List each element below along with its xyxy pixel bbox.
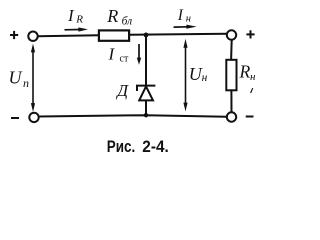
wire top right segment — [129, 34, 227, 35]
current arrow Iн — [174, 25, 197, 29]
wire from diode to bottom rail — [145, 100, 147, 115]
terminal circle bottom-right — [227, 112, 236, 121]
resistor Rн body — [226, 60, 236, 91]
current arrow IR — [65, 27, 89, 31]
wire from Rн down to bottom-right terminal — [230, 90, 232, 112]
svg-text:R: R — [75, 13, 83, 25]
voltage arrow Uп (double-headed, left side) — [31, 44, 35, 112]
comma after Rн — [250, 88, 253, 93]
svg-text:н: н — [250, 71, 256, 83]
svg-text:н: н — [202, 72, 208, 84]
svg-text:Д: Д — [115, 81, 129, 100]
node junction top (dot) — [144, 33, 149, 38]
diode Д (zener) cathode bar with bent end — [137, 86, 155, 91]
svg-text:п: п — [23, 76, 29, 90]
svg-text:2-4.: 2-4. — [142, 138, 169, 156]
wire top left segment — [38, 34, 99, 37]
svg-text:н: н — [186, 13, 191, 24]
terminal circle bottom-left — [29, 113, 38, 122]
diode Д triangle — [139, 86, 153, 100]
terminal minus sign (output -) — [246, 116, 254, 118]
svg-text:U: U — [9, 68, 23, 88]
svg-text:бл: бл — [122, 16, 133, 28]
resistor Rбл body — [99, 30, 129, 40]
wire from top-right terminal down to Rн — [230, 40, 233, 60]
svg-text:Рис.: Рис. — [107, 138, 136, 156]
terminal plus sign (input +) — [10, 31, 18, 39]
wire from junction down to diode — [145, 35, 147, 86]
node junction bottom (dot) — [144, 113, 148, 117]
terminal minus sign (input -) — [11, 117, 19, 119]
terminal plus sign (output +) — [246, 30, 254, 38]
svg-text:ст: ст — [120, 53, 129, 64]
terminal circle top-left — [28, 32, 37, 41]
terminal circle top-right — [227, 30, 236, 39]
current arrow Iст (downward) — [137, 44, 141, 65]
svg-text:R: R — [106, 6, 118, 26]
voltage arrow Uн (double-headed, middle) — [183, 39, 187, 112]
svg-text:I: I — [177, 7, 184, 24]
wire bottom rail — [39, 115, 227, 117]
svg-text:R: R — [239, 61, 251, 81]
